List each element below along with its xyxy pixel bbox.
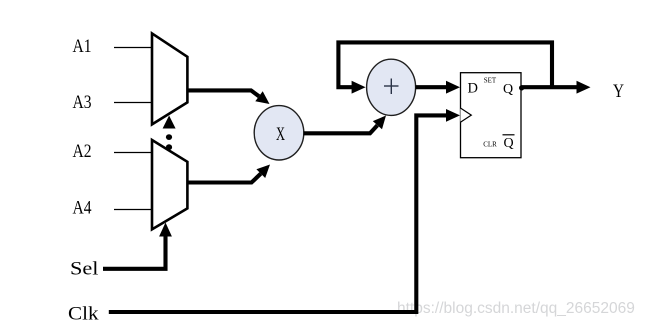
- wire M1 output to multiplier: [188, 90, 270, 104]
- wire Sel to M2 select input: [103, 223, 172, 269]
- adder body: [367, 59, 416, 115]
- wire A4 to mux M2: [114, 209, 153, 211]
- svg-text:A2: A2: [73, 141, 92, 162]
- multiplexer M2: [152, 140, 187, 229]
- feedback wire from Q to adder: [338, 42, 552, 93]
- multiplier body: [254, 106, 304, 160]
- svg-text:A1: A1: [73, 36, 92, 57]
- svg-text:D: D: [468, 80, 478, 96]
- svg-text:https://blog.csdn.net/qq_26652: https://blog.csdn.net/qq_26652069: [397, 300, 635, 317]
- svg-text:SET: SET: [484, 77, 497, 85]
- svg-text:Y: Y: [613, 81, 624, 102]
- svg-text:A3: A3: [73, 92, 92, 113]
- adder symbol +: [384, 85, 399, 87]
- adder: [367, 59, 416, 115]
- wire Clk to flip-flop clock input: [109, 109, 460, 312]
- svg-text:Q: Q: [503, 82, 513, 97]
- svg-text:X: X: [276, 124, 285, 145]
- clock input triangle: [460, 108, 471, 122]
- dotted select arrow from M2 to M1: [163, 116, 176, 151]
- multiplier X: [254, 106, 304, 160]
- wire adder to D input: [416, 81, 461, 94]
- svg-text:Clk: Clk: [68, 304, 99, 325]
- D flip-flop U1: [460, 73, 521, 158]
- wire multiplier to adder: [304, 116, 387, 134]
- wire M2 output to multiplier: [188, 165, 270, 183]
- junction dot on Q output pin: [519, 85, 524, 90]
- wire Q to output Y: [522, 81, 591, 94]
- svg-text:CLR: CLR: [483, 140, 497, 148]
- wire A2 to mux M2: [114, 152, 153, 154]
- wire A1 to mux M1: [114, 47, 153, 49]
- svg-text:A4: A4: [73, 197, 92, 218]
- wire A3 to mux M1: [114, 102, 153, 104]
- svg-text:Q: Q: [503, 136, 513, 151]
- multiplexer M1: [152, 33, 187, 124]
- flip-flop body: [461, 73, 522, 158]
- svg-text:Sel: Sel: [70, 259, 99, 280]
